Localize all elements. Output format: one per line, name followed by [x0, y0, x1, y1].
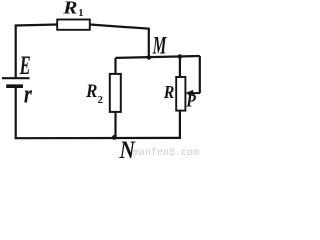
svg-text:M: M [152, 32, 167, 59]
battery E negative plate [6, 84, 23, 88]
wire: rail down to rheostat R [179, 57, 181, 78]
svg-text:R: R [85, 81, 97, 102]
svg-text:P: P [185, 91, 196, 112]
svg-text:1: 1 [78, 8, 83, 19]
svg-text:R: R [62, 0, 77, 18]
wire: rheostat R down to bottom rail [179, 111, 181, 138]
battery E positive plate [2, 77, 30, 79]
resistor R2 [110, 74, 121, 112]
wire: R1 to corner above node M [90, 25, 149, 58]
wire: middle rail from R2 branch to P branch [116, 56, 200, 58]
wire: battery negative down to bottom-left corner [15, 88, 17, 138]
svg-text:manfen5.com: manfen5.com [133, 147, 199, 158]
wire: rail down to R2 [114, 58, 116, 75]
wire: R2 down to bottom rail [114, 112, 116, 138]
junction node N dot [112, 135, 117, 140]
svg-text:2: 2 [98, 95, 103, 106]
junction node M dot [147, 55, 152, 60]
wire: battery positive terminal up and right to R1 [16, 25, 58, 78]
wire: rail right corner down to slider arm [199, 56, 201, 93]
svg-text:r: r [24, 79, 33, 108]
slider P arrow into rheostat [191, 92, 200, 94]
svg-text:E: E [19, 51, 31, 80]
wire: bottom rail [15, 137, 181, 140]
rheostat R body [176, 77, 185, 111]
junction dot above rheostat R [178, 54, 183, 59]
svg-text:R: R [163, 82, 174, 102]
resistor R1 [57, 20, 90, 30]
